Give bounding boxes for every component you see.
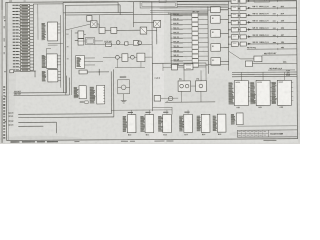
IC E26 pins right xyxy=(248,83,250,101)
IC E42 xyxy=(236,113,243,125)
resistor R4 xyxy=(13,14,34,16)
diode D11 xyxy=(240,6,246,10)
wire J1 out 2 xyxy=(177,5,228,7)
wire y23 to x157 xyxy=(134,22,157,44)
meter M1 xyxy=(85,38,95,45)
transistor Q7 xyxy=(131,55,135,59)
resistor R7 xyxy=(13,23,34,25)
IC E42 pin labels xyxy=(231,113,234,116)
IC E35 xyxy=(97,85,105,104)
wire row 0 arrow xyxy=(246,0,258,2)
resistor R5 xyxy=(13,17,34,19)
IC E26 pin labels xyxy=(228,82,232,85)
IC E1 xyxy=(48,22,58,41)
wire analog ground rail xyxy=(115,59,145,68)
resistor R19 xyxy=(13,60,34,62)
binder margin text xyxy=(3,16,5,139)
wire IC E37 top stub xyxy=(148,110,150,115)
transistor block Q3 xyxy=(196,81,207,92)
wire E7 to node xyxy=(87,69,109,76)
transistor Q5 xyxy=(116,41,120,45)
wire row 2 out xyxy=(252,12,296,16)
transistor block Q1 Q2 xyxy=(178,81,191,92)
resistor R22 xyxy=(13,69,34,71)
flip-flop E10 xyxy=(111,27,117,33)
pulse amp E33 xyxy=(137,53,145,62)
wire row 6 out xyxy=(252,42,296,45)
gate E15 xyxy=(211,44,221,52)
wire row 5 out xyxy=(252,35,296,38)
transistor Q6 xyxy=(116,55,120,59)
wire chips top rail xyxy=(111,107,172,115)
IC E3 xyxy=(48,70,58,82)
wire ladder right vertical xyxy=(207,7,209,74)
title block xyxy=(237,130,297,137)
diode D15 xyxy=(240,35,246,39)
resistor R17 xyxy=(13,54,34,56)
resistor R8 xyxy=(13,26,34,28)
scan blotches xyxy=(0,0,301,142)
resistor R12 xyxy=(13,38,34,40)
IC E2 xyxy=(47,54,58,69)
wire E30 out xyxy=(161,97,178,99)
pulse amplifier E22 xyxy=(228,35,238,39)
IC E38 pin labels xyxy=(158,115,161,118)
wire ladder top xyxy=(171,12,208,14)
IC E40 pin labels xyxy=(197,115,200,118)
wire return bus 2 xyxy=(14,78,70,96)
wire E12 out xyxy=(220,9,228,11)
IC E3 pins xyxy=(58,72,61,81)
wire row 6 arrow xyxy=(246,42,258,45)
power bus -15V xyxy=(232,73,297,75)
IC E27 pins right xyxy=(270,83,272,101)
wire analog row xyxy=(103,56,152,58)
power bus GND xyxy=(232,75,297,77)
transistor Q8 stage xyxy=(118,76,130,93)
IC E36 pin labels xyxy=(123,115,126,118)
wire clk to chip rail xyxy=(153,107,172,109)
gate E13 xyxy=(211,16,221,24)
IC E41 pin labels xyxy=(213,115,216,118)
IC E37 pin labels xyxy=(140,115,143,118)
wire row 3 arrow xyxy=(246,20,258,23)
wire E15 out xyxy=(220,46,228,48)
pulse amplifier E19 xyxy=(228,13,238,17)
pulse amplifier E23 xyxy=(228,42,238,46)
wire vertical x133.8 xyxy=(132,2,134,27)
paper edge shadow xyxy=(0,0,300,144)
resistor R9 xyxy=(13,29,34,31)
wire block link xyxy=(191,85,196,87)
wire restart row xyxy=(262,52,297,55)
revision tab xyxy=(254,0,270,2)
IC E41 xyxy=(217,114,226,132)
pulse amplifier E20 xyxy=(228,20,238,24)
gate E16 xyxy=(211,58,221,66)
wire loop links xyxy=(163,63,206,81)
IC E35 pin labels xyxy=(90,86,94,89)
IC E27 xyxy=(256,80,270,105)
wire row 2 arrow xyxy=(246,13,258,16)
junction box E50 xyxy=(87,16,92,22)
wire return bus 1 xyxy=(14,76,67,94)
IC E2 pin labels xyxy=(42,54,45,57)
wire top bus pair A xyxy=(63,2,134,93)
wire IC E38 top stub xyxy=(166,110,168,115)
IC E34 pin labels xyxy=(74,86,77,89)
wire short row xyxy=(247,46,297,50)
wire FF out xyxy=(147,29,157,31)
gate E24 xyxy=(229,51,262,62)
resistor R38 xyxy=(171,49,209,53)
wire bus MA03 xyxy=(9,122,57,133)
gate E7 xyxy=(79,70,87,74)
IC E37 xyxy=(145,115,154,133)
margin text bottom middle xyxy=(74,140,173,142)
diode D1 xyxy=(10,70,14,73)
IC E1 pin labels xyxy=(42,22,45,25)
wire row 1 arrow xyxy=(246,6,258,9)
wire E16 out xyxy=(220,60,228,62)
wire IC E39 top stub xyxy=(187,110,189,115)
flip-flop E11 xyxy=(140,27,147,34)
wire loop top xyxy=(152,63,206,71)
resistor R33 xyxy=(170,26,208,31)
resistor R15 xyxy=(13,48,34,50)
wire row 1 mid xyxy=(238,8,240,13)
resistor R39 xyxy=(171,54,209,58)
diode D13 xyxy=(240,21,246,25)
resistor R30 xyxy=(170,13,208,18)
IC E2 pins xyxy=(57,56,60,65)
wire bus MA02 xyxy=(9,119,57,122)
resistor R40 xyxy=(171,59,209,63)
wire FF link 3 xyxy=(117,29,140,31)
wire row 4 out xyxy=(252,26,296,30)
gate E6 xyxy=(78,39,84,45)
wire row 4 mid xyxy=(238,30,240,35)
punch marks top edge xyxy=(9,0,26,1)
IC E1 pins xyxy=(58,24,61,33)
crystal Y1 xyxy=(184,64,193,70)
wire emitter rail xyxy=(165,101,215,103)
diode D12 xyxy=(240,13,246,17)
bus wire left vertical xyxy=(32,4,34,70)
IC E36 xyxy=(127,115,136,133)
drawing frame xyxy=(6,1,298,141)
diode D10 xyxy=(240,0,246,3)
resistor R14 xyxy=(13,44,34,46)
wire row 5 mid xyxy=(238,36,240,38)
wire IC E27 to bus xyxy=(262,72,264,80)
wire y45 bus xyxy=(95,43,152,45)
wire M1 left xyxy=(78,40,85,42)
wire Q8 to ground xyxy=(123,94,125,101)
IC E28 xyxy=(277,80,291,105)
power bus +10V xyxy=(232,70,297,72)
diode D16 xyxy=(240,42,246,46)
pulse amplifier E17 xyxy=(228,0,238,3)
title block revision text xyxy=(238,131,266,135)
wire stub FF2 top xyxy=(98,15,100,28)
resistor R10 xyxy=(13,32,34,34)
pulse amplifier E18 xyxy=(228,6,238,10)
wire gate stubs xyxy=(75,33,86,41)
gate E14 xyxy=(211,30,221,38)
wire E31 out rows xyxy=(84,58,103,65)
resistor R11 xyxy=(13,35,34,37)
resistor R31 xyxy=(170,17,208,22)
wire E14 out xyxy=(220,32,228,34)
IC E34 xyxy=(79,86,86,99)
scan noise xyxy=(0,0,300,144)
wire IC E36 top stub xyxy=(131,110,133,115)
scanner streak xyxy=(150,0,164,144)
IC E39 xyxy=(184,114,193,132)
wire row 3 out xyxy=(252,20,296,23)
resistor R34 xyxy=(171,31,209,36)
wire row 3 mid xyxy=(238,23,240,28)
wire top horizontal from bus xyxy=(33,3,63,5)
wire feed y11 xyxy=(150,9,228,11)
IC E3 pin labels xyxy=(42,70,45,73)
gate E30 xyxy=(154,96,161,102)
wire feed y13 xyxy=(150,11,208,13)
wire to right bus xyxy=(206,63,229,65)
wire FF link 1 xyxy=(97,24,99,27)
wire bus MA01 xyxy=(8,69,114,117)
wire row 1 out xyxy=(252,6,296,9)
inverter E32 xyxy=(122,54,128,62)
wire from D1 xyxy=(14,71,36,78)
resistor R36 xyxy=(171,40,209,45)
wire long vertical x152 xyxy=(151,2,154,111)
oscillator B1 xyxy=(154,20,161,27)
capacitor C2 xyxy=(133,41,141,46)
resistor R6 xyxy=(13,20,34,22)
gate E25 xyxy=(245,61,296,67)
wire J1 out 1 xyxy=(177,1,228,4)
resistor R41 xyxy=(171,63,209,67)
resistor R32 xyxy=(170,22,208,27)
gate E12 xyxy=(211,7,221,13)
wire pwr clr row xyxy=(268,68,295,70)
diode D14 xyxy=(240,28,246,32)
title block drawing number xyxy=(270,133,283,136)
resistor R16 xyxy=(13,51,34,53)
capacitor C1 xyxy=(171,64,177,70)
IC E38 xyxy=(163,114,172,132)
wire ladder left vertical xyxy=(170,13,172,68)
wire E13 out xyxy=(220,18,228,20)
zone labels left margin xyxy=(4,20,5,21)
title block top line xyxy=(237,125,296,127)
wire row 4 arrow xyxy=(246,27,258,31)
resistor R13 xyxy=(13,41,34,43)
wire IC E26 to bus xyxy=(240,72,242,80)
net label ties xyxy=(66,34,69,61)
wire Q down 2 xyxy=(200,91,202,102)
wire vertical bus D xyxy=(70,30,72,95)
wire row 5 arrow xyxy=(246,35,258,38)
wire IC E28 to bus xyxy=(283,72,285,80)
wire diagonal into FF chain xyxy=(65,24,90,30)
chip top labels xyxy=(128,112,190,113)
margin text bottom left xyxy=(10,141,58,142)
wire row 0 out xyxy=(252,0,296,2)
resistor R2 xyxy=(13,7,34,9)
flip-flop E8 xyxy=(90,21,97,28)
frame inner left line xyxy=(6,2,9,140)
transistor Q4 xyxy=(166,96,173,102)
wire top bus pair B xyxy=(65,4,208,95)
wire bus MA00 xyxy=(8,71,111,114)
resistor R18 xyxy=(13,57,34,59)
wire FF link 2 xyxy=(105,29,111,31)
wire row 6 mid xyxy=(238,43,240,45)
resistor R1 xyxy=(12,4,33,6)
resistor R60 xyxy=(80,101,89,104)
wire row 2 mid xyxy=(238,15,240,20)
resistor R20 xyxy=(13,63,34,65)
net labels transistor section xyxy=(179,78,200,81)
IC E28 pins right xyxy=(291,83,293,101)
IC E28 pin labels xyxy=(272,81,276,84)
wire IC interconnect xyxy=(47,43,64,54)
gate E5 xyxy=(78,31,84,38)
wire vertical bus A xyxy=(59,15,61,88)
wire M1 right xyxy=(95,40,103,42)
resistor R52 xyxy=(125,42,128,45)
delay line DL1 xyxy=(104,41,111,46)
IC E31 xyxy=(76,56,85,69)
margin text bottom right xyxy=(263,140,276,141)
wire PA top feeds xyxy=(184,70,201,81)
IC E40 xyxy=(201,114,210,132)
ground xyxy=(121,101,127,103)
pulse amplifier E21 xyxy=(228,28,238,32)
bus wire left vertical 2 xyxy=(37,4,39,40)
IC E27 pin labels xyxy=(250,81,254,84)
wire right bus vertical xyxy=(227,1,229,70)
wire Q down 1 xyxy=(181,91,183,102)
IC E39 pin labels xyxy=(179,115,183,118)
connector J1 tab xyxy=(159,0,166,2)
wire row 0 mid xyxy=(238,1,240,6)
resistor R3 xyxy=(13,11,34,13)
resistor R37 xyxy=(171,45,209,50)
connector J1 xyxy=(140,1,177,8)
IC E35 pins right xyxy=(103,87,105,101)
resistor R21 xyxy=(13,66,34,68)
resistor R35 xyxy=(171,36,209,41)
IC E26 xyxy=(234,81,248,106)
flip-flop E9 xyxy=(99,27,105,33)
wire J1 out 3 xyxy=(160,7,229,9)
